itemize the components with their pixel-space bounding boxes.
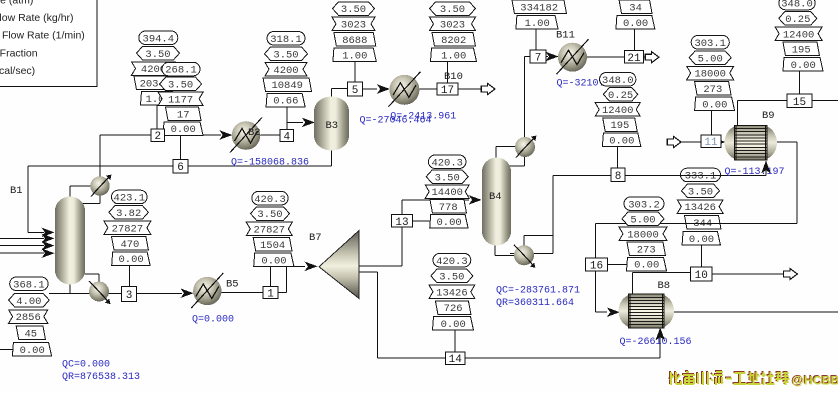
svg-text:QR=876538.313: QR=876538.313	[62, 372, 140, 383]
svg-text:3.50: 3.50	[440, 4, 465, 16]
svg-text:B7: B7	[309, 232, 322, 244]
svg-text:273: 273	[637, 245, 656, 257]
svg-text:3.50: 3.50	[439, 272, 464, 284]
stream data table 11	[687, 36, 735, 112]
svg-text:14: 14	[449, 354, 463, 366]
stream data table 8	[595, 73, 641, 148]
heater block B2	[230, 118, 262, 153]
svg-text:726: 726	[444, 303, 463, 315]
wire stream 14 : B7 to B8 bottom	[359, 271, 378, 273]
svg-text:15: 15	[793, 97, 806, 109]
svg-text:0.00: 0.00	[20, 345, 45, 357]
svg-text:10849: 10849	[271, 80, 303, 92]
svg-text:27827: 27827	[254, 225, 286, 237]
svg-text:QC=-283761.871: QC=-283761.871	[496, 286, 580, 297]
svg-text:3.50: 3.50	[145, 49, 170, 61]
wire stream 21 : B11 out	[587, 56, 625, 58]
svg-text:3.50: 3.50	[435, 172, 460, 184]
svg-text:1177: 1177	[168, 95, 193, 107]
svg-text:195: 195	[792, 45, 811, 57]
svg-text:Volume Flow Rate (1/min): Volume Flow Rate (1/min)	[0, 30, 85, 42]
svg-text:268.1: 268.1	[165, 65, 197, 77]
stream tag box 5	[348, 82, 363, 97]
stream data table 14	[429, 253, 475, 331]
wire stream 3 : B1 bottoms to B5	[49, 292, 122, 294]
stream data table 2	[132, 31, 180, 106]
svg-text:368.1: 368.1	[13, 279, 45, 291]
svg-text:Q=-26610.156: Q=-26610.156	[620, 337, 692, 348]
svg-text:7: 7	[535, 53, 542, 65]
stream tag box 17	[437, 83, 458, 97]
svg-text:4200: 4200	[273, 65, 298, 77]
svg-text:2: 2	[154, 131, 161, 143]
svg-text:0.66: 0.66	[273, 96, 298, 108]
svg-text:17: 17	[177, 109, 190, 121]
svg-text:1504: 1504	[260, 240, 285, 252]
svg-text:B2: B2	[248, 127, 261, 139]
stream data table 13	[425, 155, 469, 229]
svg-text:B11: B11	[556, 30, 575, 42]
stream tag box 1	[263, 287, 278, 301]
outlet arrow stream 17	[481, 83, 495, 94]
stream tag box 15	[787, 94, 812, 109]
svg-text:195: 195	[610, 120, 629, 132]
wire stream 6 : B3 bottoms recycle to B1	[331, 150, 333, 166]
svg-text:348.0: 348.0	[781, 0, 813, 11]
svg-text:18000: 18000	[627, 230, 659, 242]
stream data table 1	[246, 191, 294, 267]
svg-text:3.82: 3.82	[116, 208, 141, 220]
svg-text:1: 1	[267, 289, 274, 301]
svg-text:0.00: 0.00	[436, 217, 461, 229]
svg-text:27827: 27827	[112, 223, 144, 235]
B4 condenser	[515, 136, 537, 158]
svg-text:1.00: 1.00	[342, 51, 367, 63]
svg-text:394.4: 394.4	[143, 33, 175, 45]
B1 reboiler	[89, 281, 111, 304]
heater block B10	[388, 72, 420, 107]
wire stream 16 horizontal run (crosses data table 12)	[596, 223, 798, 225]
wire B4 reboiler loop	[494, 244, 496, 256]
stream data table 4	[263, 32, 312, 108]
svg-text:13: 13	[395, 217, 408, 229]
svg-text:0.25: 0.25	[785, 14, 810, 26]
svg-text:12400: 12400	[602, 105, 634, 117]
arrow into B9 bottom	[761, 161, 771, 174]
svg-text:333.1: 333.1	[685, 171, 717, 183]
svg-text:Mass Flow Rate (kg/hr): Mass Flow Rate (kg/hr)	[0, 12, 74, 24]
watermark 化海川流-工业社群@HCBBS	[669, 371, 671, 384]
svg-text:B3: B3	[326, 120, 339, 132]
svg-text:12400: 12400	[783, 29, 815, 41]
svg-text:3.50: 3.50	[341, 4, 366, 16]
svg-text:3.50: 3.50	[168, 80, 193, 92]
svg-text:45: 45	[24, 329, 37, 341]
stream data table 16	[619, 197, 667, 272]
svg-text:348.0: 348.0	[602, 75, 634, 87]
svg-text:0.00: 0.00	[791, 60, 816, 72]
stream data table 6	[158, 62, 203, 136]
svg-text:420.3: 420.3	[431, 157, 463, 169]
svg-text:3.50: 3.50	[257, 209, 282, 221]
svg-text:423.1: 423.1	[114, 193, 146, 205]
wire B1 reboiler loop	[69, 283, 71, 293]
svg-text:21: 21	[627, 53, 641, 65]
svg-text:B8: B8	[658, 280, 671, 292]
wire stream 5 : B3 vapor to B10	[331, 89, 333, 97]
svg-text:18000: 18000	[694, 69, 726, 81]
feed arrow stream 11	[667, 136, 681, 147]
wire stream 11 feed to B9	[680, 141, 701, 143]
wire stream 7 : B4 condenser to B11	[524, 57, 526, 138]
legend box	[0, 0, 97, 87]
svg-text:318.1: 318.1	[270, 34, 302, 46]
wire B8 right outlet	[673, 311, 838, 313]
svg-text:B1: B1	[10, 185, 23, 197]
stream tag box 16	[586, 258, 608, 273]
svg-text:470: 470	[120, 239, 139, 251]
wire stream 16 : B9 right to B8 left	[777, 141, 797, 143]
wire stream 2 : B1 condenser to B2	[99, 135, 101, 177]
svg-text:303.1: 303.1	[694, 38, 726, 50]
wire stream 13 : B7 to B4	[359, 265, 402, 267]
svg-text:1.00: 1.00	[441, 51, 466, 63]
wire stream 17 : B10 out	[420, 88, 438, 90]
svg-text:3.50: 3.50	[688, 186, 713, 198]
heat exchanger block B8	[619, 294, 675, 328]
wire stream 1 : B5 to B7	[221, 292, 263, 294]
svg-text:10: 10	[695, 270, 708, 282]
svg-text:0.00: 0.00	[118, 254, 143, 266]
stream tag box 13	[392, 215, 413, 229]
svg-text:8: 8	[615, 171, 622, 183]
svg-text:14400: 14400	[431, 187, 463, 199]
stream data table feed	[9, 277, 52, 357]
svg-text:5.00: 5.00	[630, 214, 655, 226]
stream tag box 2	[151, 129, 165, 143]
column B1 (RadFrac)	[55, 197, 85, 285]
column B4 (RadFrac)	[482, 158, 511, 246]
svg-text:8202: 8202	[441, 35, 466, 47]
stream tag box 7	[530, 50, 546, 65]
wire B4 condenser loop	[495, 146, 497, 158]
svg-text:34: 34	[629, 3, 642, 15]
svg-text:8688: 8688	[342, 35, 367, 47]
svg-text:0.00: 0.00	[702, 100, 727, 112]
svg-text:Q=-2413.961: Q=-2413.961	[390, 112, 456, 123]
svg-text:16: 16	[590, 261, 603, 273]
svg-text:Vapor Fraction: Vapor Fraction	[0, 47, 38, 59]
svg-text:420.3: 420.3	[436, 256, 468, 268]
stream tag box 21	[625, 51, 644, 65]
svg-text:B4: B4	[489, 191, 502, 203]
stream tag box 10	[691, 267, 713, 282]
svg-text:5: 5	[352, 85, 359, 97]
stream data table 17	[430, 2, 477, 63]
outlet arrow stream 21	[645, 52, 659, 63]
flash drum B3	[314, 97, 349, 151]
stream data table 12	[677, 168, 723, 246]
svg-text:0.00: 0.00	[441, 319, 466, 331]
svg-text:273: 273	[703, 84, 722, 96]
wire feed streams into B1	[0, 237, 44, 239]
arrow into B8 bottom	[655, 328, 665, 341]
svg-text:4: 4	[283, 132, 290, 144]
svg-text:2856: 2856	[16, 312, 41, 324]
heater block B11	[557, 39, 589, 74]
svg-text:4.00: 4.00	[16, 296, 41, 308]
svg-text:0.00: 0.00	[261, 255, 286, 267]
wire stream 10 : B8 top to outlet	[632, 273, 634, 296]
svg-text:Q=0.000: Q=0.000	[192, 315, 234, 326]
heater block B5	[191, 273, 223, 308]
stream tag box 11	[701, 135, 721, 149]
svg-text:QR=360311.664: QR=360311.664	[496, 298, 574, 309]
svg-text:0.00: 0.00	[623, 18, 648, 30]
svg-text:17: 17	[441, 85, 454, 97]
stream data table 15	[775, 0, 823, 72]
heat exchanger block B9	[725, 125, 778, 160]
svg-text:3023: 3023	[341, 20, 366, 32]
svg-text:303.2: 303.2	[628, 199, 660, 211]
wire stream 8 : B4 bottoms to B9 bottom	[553, 175, 611, 177]
svg-text:Pressure (atm): Pressure (atm)	[0, 0, 33, 7]
stream data table 3	[104, 190, 151, 266]
svg-text:B10: B10	[444, 71, 463, 83]
stream tag box 6	[173, 160, 188, 175]
svg-text:Q=-158068.836: Q=-158068.836	[231, 158, 309, 169]
stream tag box 8	[611, 168, 625, 183]
svg-text:13426: 13426	[684, 202, 716, 214]
wire stream 15 : B9 top out	[737, 101, 739, 126]
stream data table 5	[332, 2, 376, 63]
svg-text:13426: 13426	[436, 287, 468, 299]
svg-text:0.00: 0.00	[171, 124, 196, 136]
stream tag box 14	[446, 352, 466, 366]
svg-text:0.25: 0.25	[608, 90, 633, 102]
svg-text:3023: 3023	[440, 20, 465, 32]
svg-text:778: 778	[439, 202, 458, 214]
svg-text:3.50: 3.50	[273, 49, 298, 61]
svg-text:6: 6	[177, 162, 184, 174]
B4 reboiler	[514, 245, 536, 268]
svg-text:5.00: 5.00	[698, 53, 723, 65]
stream data table 7	[512, 0, 567, 30]
svg-text:Q=-113.197: Q=-113.197	[725, 167, 785, 178]
svg-text:334182: 334182	[520, 3, 558, 15]
svg-text:B5: B5	[226, 279, 239, 291]
svg-text:420.3: 420.3	[254, 194, 286, 206]
svg-text:0.00: 0.00	[634, 260, 659, 272]
stream tag box 4	[280, 130, 294, 144]
splitter B7	[319, 231, 359, 299]
stream data table 21	[616, 0, 655, 30]
svg-text:0.00: 0.00	[609, 135, 634, 147]
svg-text:3: 3	[126, 290, 133, 302]
svg-text:Duty (cal/sec): Duty (cal/sec)	[0, 65, 35, 77]
wire B1 condenser loop	[69, 186, 71, 198]
B1 condenser	[90, 175, 111, 197]
svg-text:11: 11	[704, 137, 718, 149]
wire stream 4 : B2 to B3	[260, 134, 280, 136]
svg-text:B9: B9	[762, 110, 775, 122]
svg-text:@HCBBS: @HCBBS	[792, 373, 838, 387]
svg-text:0.00: 0.00	[689, 234, 714, 246]
svg-text:1.00: 1.00	[525, 18, 550, 30]
outlet arrow stream 10	[784, 268, 798, 279]
stream tag box 3	[122, 287, 137, 303]
svg-text:QC=0.000: QC=0.000	[62, 360, 110, 371]
